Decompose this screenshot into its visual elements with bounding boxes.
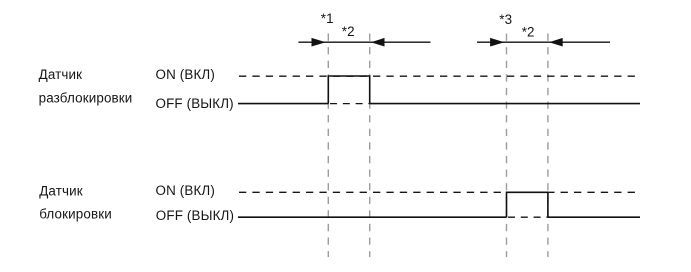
svg-text:Датчик: Датчик [39, 184, 83, 199]
svg-text:ON (ВКЛ): ON (ВКЛ) [156, 183, 215, 198]
svg-text:OFF (ВЫКЛ): OFF (ВЫКЛ) [156, 96, 234, 111]
svg-text:OFF (ВЫКЛ): OFF (ВЫКЛ) [156, 208, 234, 223]
svg-text:ON (ВКЛ): ON (ВКЛ) [156, 67, 215, 82]
svg-text:блокировки: блокировки [39, 206, 112, 221]
svg-text:*2: *2 [342, 24, 355, 39]
svg-text:*3: *3 [499, 12, 512, 27]
svg-text:Датчик: Датчик [39, 67, 83, 82]
svg-text:разблокировки: разблокировки [39, 91, 133, 106]
svg-text:*2: *2 [522, 25, 535, 40]
svg-text:*1: *1 [321, 11, 334, 26]
